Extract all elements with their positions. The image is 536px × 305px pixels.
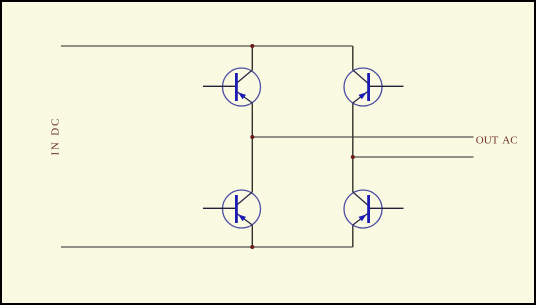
svg-text:AC: AC [502,134,517,146]
svg-text:OUT: OUT [476,134,499,146]
svg-text:IN DC: IN DC [49,117,61,156]
